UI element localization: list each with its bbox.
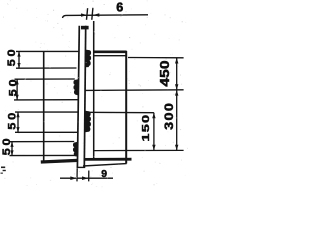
svg-text:300: 300 bbox=[162, 102, 175, 130]
extension line L6 bbox=[15, 131, 78, 133]
dim line D3 bbox=[17, 112, 19, 132]
arrowhead 9 right (pointing right) bbox=[82, 176, 89, 180]
extension line L2 bbox=[16, 67, 77, 69]
plate bottom cap bbox=[77, 166, 86, 168]
weld bead W1 right side bbox=[85, 50, 91, 68]
arrowhead D2 top bbox=[16, 79, 19, 84]
arrowhead 450 top bbox=[175, 58, 178, 64]
arrowhead 450 bottom bbox=[175, 84, 178, 90]
arrowhead 300 top bbox=[175, 90, 178, 96]
extension line L8 bbox=[10, 154, 78, 156]
right dim line 450/300 bbox=[176, 58, 178, 151]
arrowhead D3 top bbox=[16, 112, 19, 117]
bottom dim line 9 bbox=[60, 177, 113, 179]
arrowhead 300 bottom bbox=[175, 145, 178, 151]
left rect left edge bbox=[43, 51, 45, 162]
right rect bottom edge bbox=[84, 158, 132, 161]
arrowhead D4 top bbox=[10, 142, 13, 147]
bottom tick 2 bbox=[88, 171, 90, 182]
arrowhead 6 right (pointing left) bbox=[93, 13, 99, 16]
weld bead W3 right side bbox=[85, 111, 91, 133]
svg-text:50: 50 bbox=[6, 77, 19, 97]
svg-text:50: 50 bbox=[5, 110, 18, 130]
bottom tick 1 bbox=[76, 168, 78, 181]
right rect top edge bbox=[93, 50, 127, 53]
plate left edge line bbox=[77, 26, 79, 168]
extension line L4 right bbox=[85, 89, 184, 92]
right rect right edge bbox=[125, 51, 127, 164]
arrowhead D4 bottom bbox=[10, 150, 13, 155]
plate top cap blob bbox=[81, 26, 89, 30]
arrowhead D1 bottom bbox=[17, 63, 20, 68]
svg-text:150: 150 bbox=[139, 114, 151, 142]
arrowhead 150 bottom bbox=[152, 145, 155, 151]
scan speckle bottom left bbox=[1, 167, 6, 174]
left rect bottom edge bbox=[41, 160, 78, 162]
dim line D4 bbox=[11, 142, 13, 156]
right rect second bottom line bbox=[83, 164, 127, 166]
right rect left edge bbox=[93, 21, 95, 159]
paper grain bbox=[3, 0, 188, 187]
dim line D2 bbox=[16, 79, 18, 100]
top dim line bbox=[63, 15, 149, 18]
arrowhead 150 top bbox=[152, 113, 155, 119]
weld bead W2 left side bbox=[73, 79, 78, 96]
extension line L3 bbox=[15, 78, 75, 80]
top tick 2 bbox=[92, 8, 93, 20]
svg-text:450: 450 bbox=[158, 60, 172, 86]
right top extension line bbox=[128, 57, 184, 59]
arrowhead D2 bottom bbox=[16, 95, 19, 100]
arrowhead D3 bottom bbox=[16, 127, 19, 132]
extension line L7 bbox=[10, 141, 75, 143]
svg-text:50: 50 bbox=[5, 47, 18, 67]
extension line L4 left bbox=[14, 99, 78, 101]
weld bead W4 left side bbox=[73, 142, 78, 157]
right rect inner bottom line bbox=[94, 149, 183, 151]
top tick 1 bbox=[87, 8, 88, 20]
svg-text:50: 50 bbox=[0, 136, 13, 156]
extension line L5 right bbox=[85, 111, 154, 113]
arrowhead 6 left (pointing right) bbox=[81, 13, 87, 16]
left rect top edge bbox=[43, 50, 78, 52]
plate right edge line bbox=[84, 26, 85, 168]
arrowhead 9 left (pointing right) bbox=[70, 176, 77, 180]
right rect inner top line bbox=[94, 55, 126, 57]
svg-text:9: 9 bbox=[101, 169, 107, 180]
extension line L5 left bbox=[15, 111, 78, 113]
svg-text:6: 6 bbox=[116, 0, 123, 14]
right dim line 150 bbox=[153, 113, 155, 151]
arrowhead D1 top bbox=[17, 51, 20, 56]
dim line D1 bbox=[18, 51, 20, 68]
extension line L1 bbox=[16, 50, 43, 52]
